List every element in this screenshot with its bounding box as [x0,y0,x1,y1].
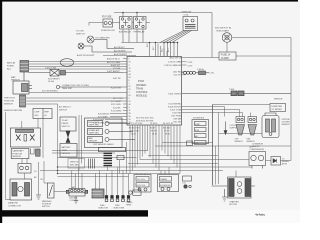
gry/blk drop wire [38,162,40,195]
PCM bottom drops [130,125,180,174]
solenoid cluster B [158,175,179,192]
PCM top bundle [158,44,167,57]
crank sensor small [129,187,141,196]
riser wires bottom [96,113,219,196]
fuel injector 5 [127,196,130,202]
mid vertical pair [79,115,82,171]
solenoid cluster A [134,175,151,193]
wire bts [24,173,26,179]
coil bar stack [104,153,113,167]
stack side box [117,156,124,160]
top border [0,0,298,2]
ignition switch [222,33,232,43]
left border [0,0,2,223]
fuel injector 2 [111,196,114,202]
starter motor [212,177,256,198]
generator a/c compressor [249,152,266,169]
bottom drop labels [129,128,170,136]
hatched connector [36,149,41,156]
wire diode [266,145,292,161]
wire fuse2 right [236,55,291,57]
wire relay top drops [123,13,137,17]
park sw feed vertical [44,161,48,183]
wire battery feed rows [29,62,124,70]
battery connector [20,61,29,73]
vehicle speed sensor box [68,159,85,169]
wire park sw to iac [54,191,66,193]
wire tps rows [26,98,124,174]
rails to right cluster [182,107,251,118]
a/c compressor clutch relay [13,72,32,94]
funnel sensor 2 [248,117,257,136]
upstream O2 sensor [262,113,279,138]
MAP dark box [89,189,104,198]
ref box sensor A [60,117,76,137]
long horizontal runs [40,143,291,177]
wire o2 heater long [182,92,291,94]
inline connector C105 [231,91,244,96]
wire coil fan [160,31,192,43]
wire dlc line [213,105,271,186]
inline connector chain [182,71,210,75]
generator symbol circle B [78,43,132,52]
ref box sensor B [60,138,77,158]
right solenoid stack [187,120,209,146]
PCM right pin labels inside [164,57,182,124]
fuel injector 1 [105,196,108,202]
wire starter top [235,171,237,178]
ground under drop [36,195,41,199]
relay K2 fuel pump relay [134,17,147,30]
PCM left pins [105,59,127,123]
camshaft sensor text box [11,149,29,159]
bottom-left black bar [0,210,148,216]
wire top feed [89,23,103,26]
flat junction box [99,148,126,152]
PCM box [127,57,182,126]
diode box [271,157,281,166]
PCM inner bottom labels [136,118,153,123]
collector junction dots [149,42,179,44]
wire into pcm top left [150,43,178,57]
five volt arrow [224,122,227,135]
PCM left pin labels [93,58,124,125]
inline connector loop [60,59,74,67]
data link connector [10,179,32,200]
fuse F14 box [219,52,236,60]
iac ground [74,196,78,204]
satellite box B [183,176,192,188]
wire collector rail [122,42,179,44]
wire o2 left [219,133,263,135]
stack drop wire [108,142,127,174]
wire relay bottom drops [123,29,143,43]
throttle position sensor [20,95,26,107]
battery temp sensor small [18,164,31,174]
junction dots [57,166,58,174]
sensor cluster box [85,118,136,148]
ignition coil [183,17,198,31]
PCM right stubs [182,62,187,75]
svg-text:4x4abc: 4x4abc [255,212,266,216]
funnel sensor 1 [236,117,245,136]
wire coil right vertical [182,13,219,58]
generator symbol circle A [87,36,134,49]
drop labels rotated [147,44,170,52]
relay K1 ASD relay [120,17,133,30]
sensor junction circle [56,85,123,88]
left margin bus [6,112,11,200]
PCM bottom pin numbers [129,123,173,125]
park neutral switch [48,183,55,198]
top rail dots [122,12,138,14]
wire top rail [114,12,212,14]
wire header drops [37,119,39,129]
wire ac to pcm [29,92,123,94]
wires iac up [72,168,82,190]
wire ign switch down [226,43,228,53]
u loop wire [31,149,35,155]
idle air control motor [66,189,87,197]
PCM left pin numbers inside [129,59,131,125]
inline connector X box [29,70,124,77]
distributor assembly [10,128,40,147]
fuel injector 4 [122,196,125,202]
wire right edge vertical [290,38,292,145]
stack vertical right [212,105,214,186]
fuse F5 [103,19,113,27]
wire fuse to relays [113,22,151,24]
fuel injector 3 [116,196,119,202]
distributor header box [33,109,52,119]
downstream O2 box [270,104,286,112]
starter ground [222,189,227,201]
wire dist drops [22,119,43,164]
wire ign switch to right edge [232,37,291,39]
